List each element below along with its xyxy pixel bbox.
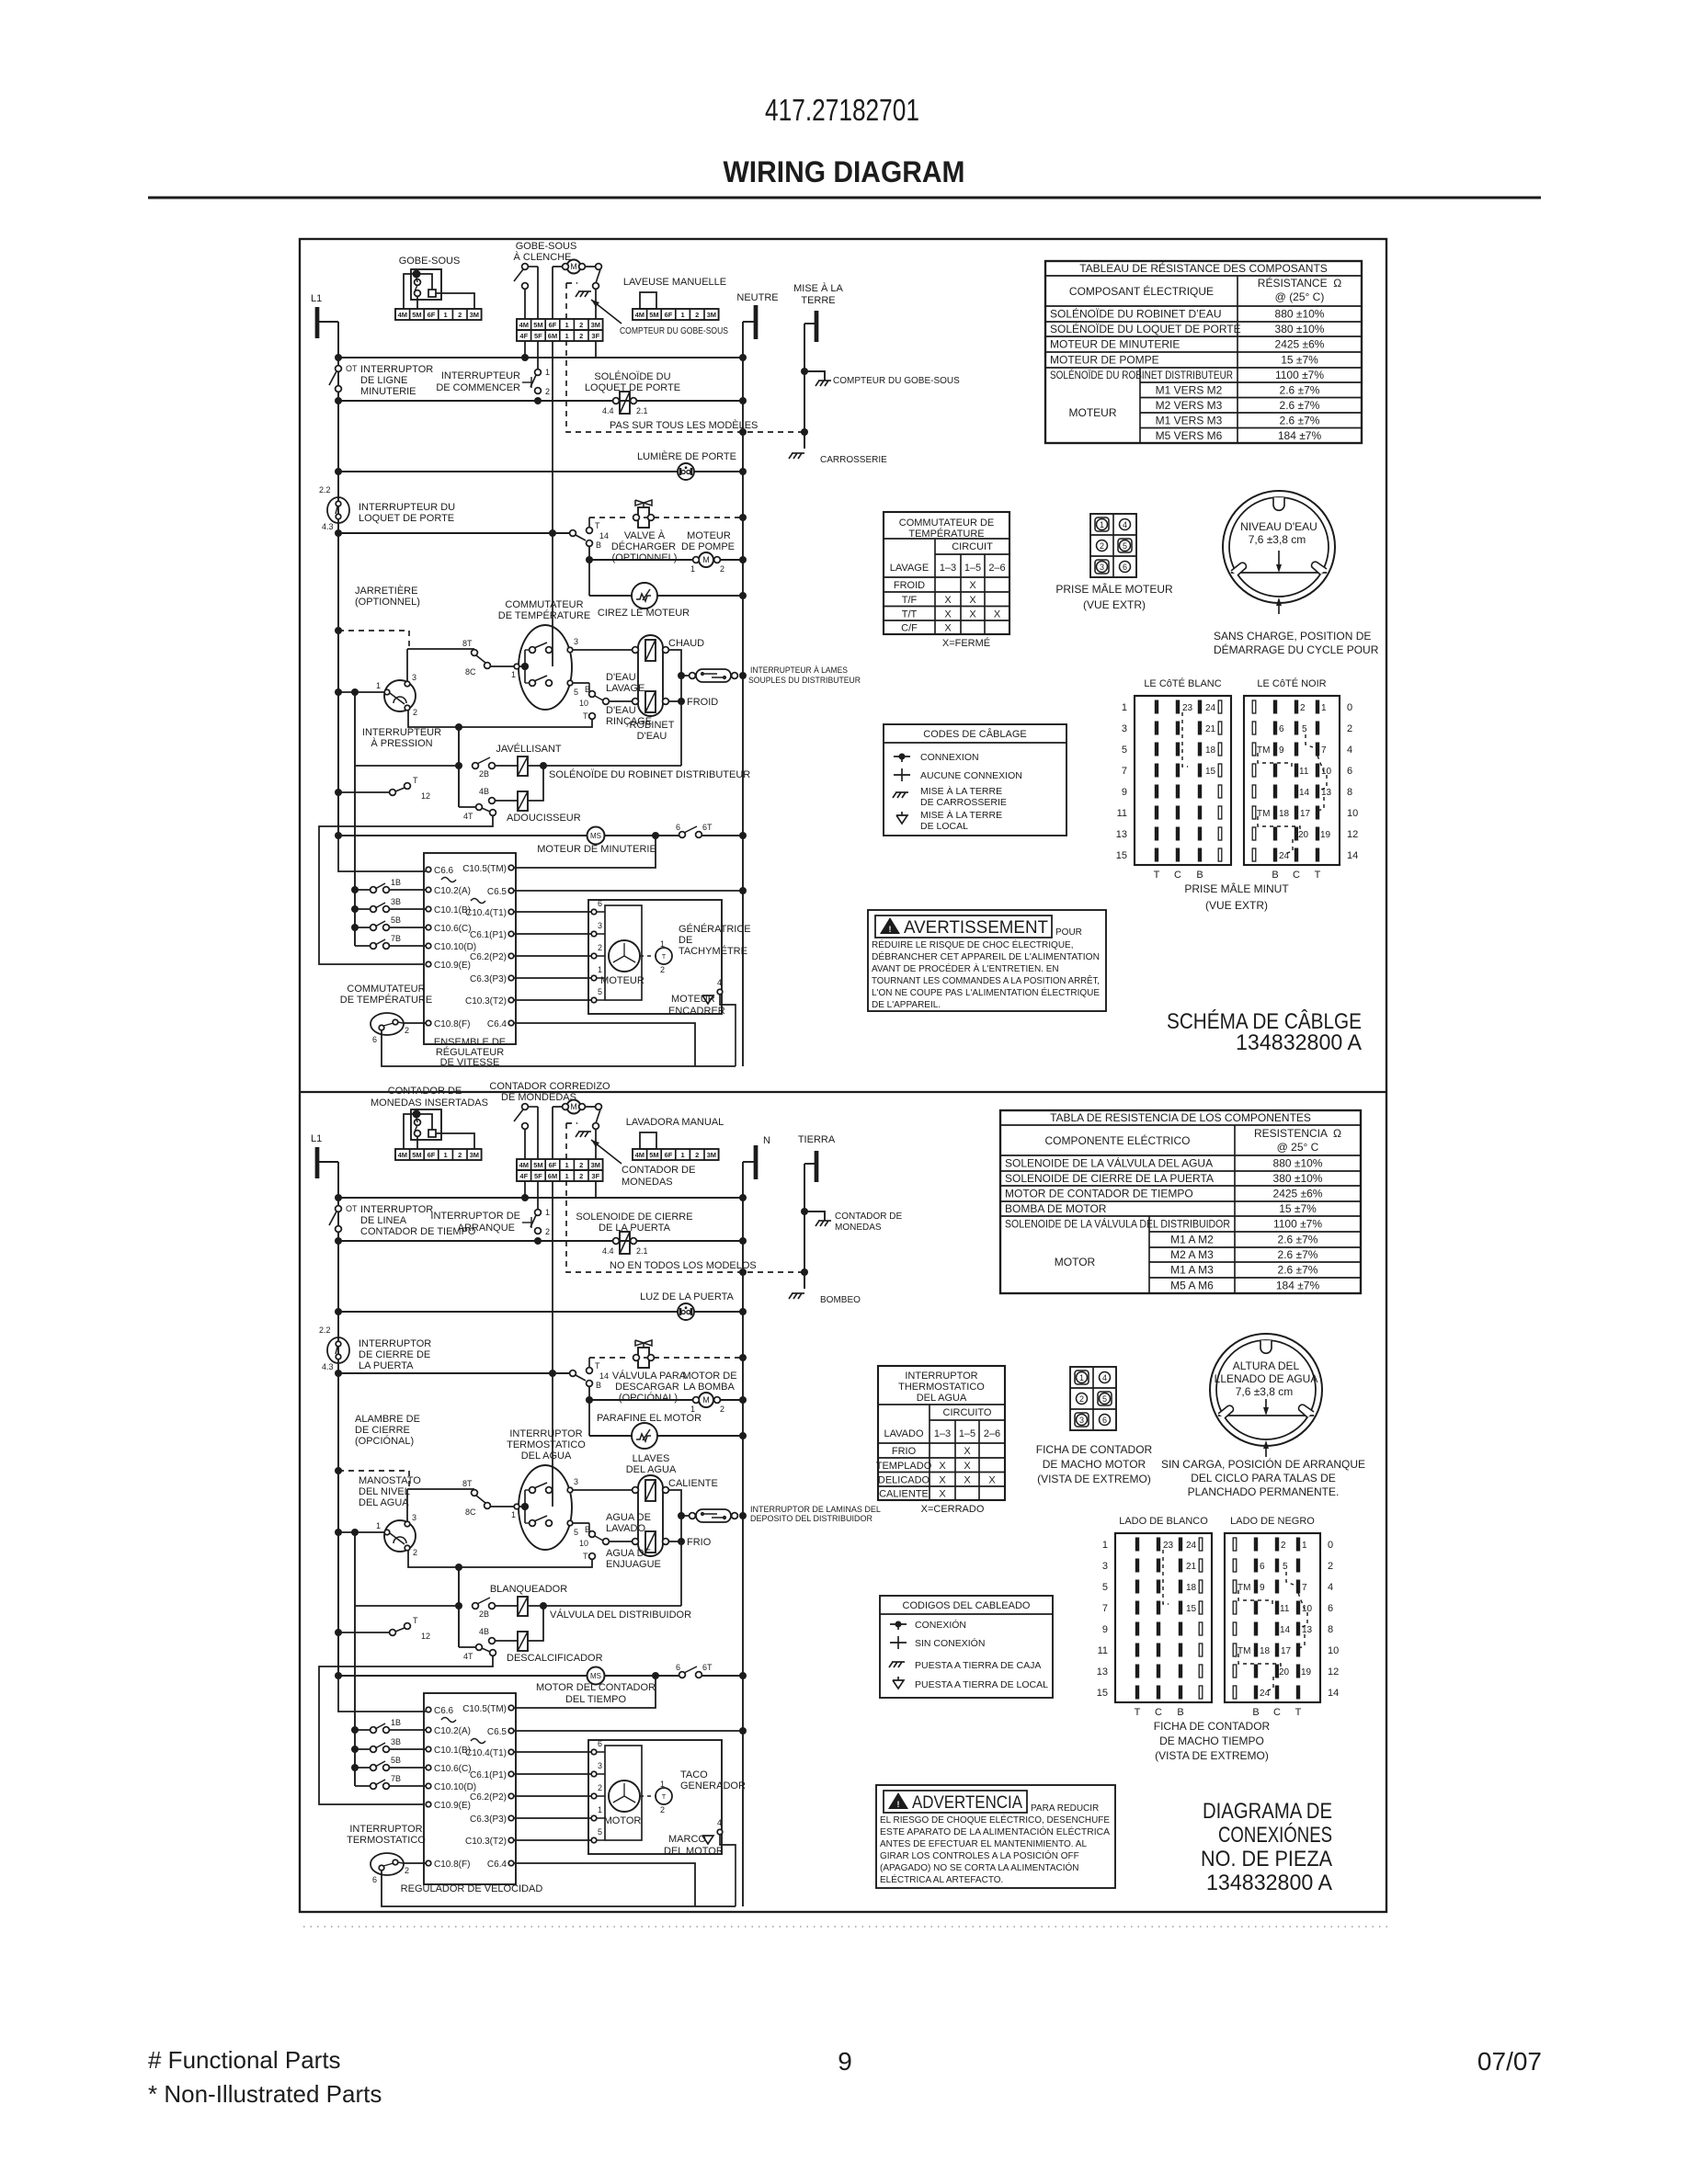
svg-text:DE TEMPÉRATURE: DE TEMPÉRATURE [498,609,590,621]
svg-text:FROID: FROID [687,697,718,708]
svg-text:REGULADOR DE VELOCIDAD: REGULADOR DE VELOCIDAD [401,1883,543,1894]
svg-text:TM: TM [1237,1646,1250,1656]
svg-text:5B: 5B [391,1756,401,1765]
svg-text:1: 1 [1100,520,1104,529]
timer line switch OT [336,1206,342,1212]
C6.5 squiggle [471,1739,485,1744]
svg-text:6F: 6F [549,321,557,329]
start switch [535,370,542,376]
wire thermostat to C10.8 [398,1862,403,1863]
svg-text:LADO DE NEGRO: LADO DE NEGRO [1230,1516,1315,1527]
svg-text:417.27182701: 417.27182701 [765,93,919,127]
svg-text:C6.1(P1): C6.1(P1) [470,930,507,940]
softener switch 4B [489,798,496,804]
svg-text:DE: DE [679,935,692,946]
svg-text:PAS SUR TOUS LES MODÈLES: PAS SUR TOUS LES MODÈLES [610,419,758,431]
svg-text:B: B [585,1525,590,1534]
svg-text:TABLEAU DE RÉSISTANCE DES COMP: TABLEAU DE RÉSISTANCE DES COMPOSANTS [1079,261,1328,275]
temp switch upper contact [530,1487,536,1494]
svg-text:MINUTERIE: MINUTERIE [360,386,416,397]
timer motor MS [587,1667,605,1685]
pressure switch [384,1520,416,1552]
svg-text:FROID: FROID [894,580,925,591]
svg-text:3F: 3F [591,1172,599,1180]
svg-text:3: 3 [412,673,416,682]
svg-text:X: X [969,609,976,620]
svg-text:4F: 4F [519,332,528,340]
svg-text:NO EN TODOS LOS MODELOS: NO EN TODOS LOS MODELOS [610,1260,757,1271]
svg-text:DÉMARRAGE DU CYCLE POUR: DÉMARRAGE DU CYCLE POUR [1214,643,1379,656]
svg-text:INTERRUPTOR: INTERRUPTOR [360,364,433,375]
svg-text:2: 2 [695,1151,699,1159]
temp switch upper contact [530,647,536,654]
svg-text:SOUPLES DU DISTRIBUTEUR: SOUPLES DU DISTRIBUTEUR [748,676,861,686]
svg-text:1B: 1B [391,1718,401,1727]
motor pin 2 [591,953,597,959]
earth rail wire [804,1164,805,1289]
svg-text:5M: 5M [412,1151,421,1159]
svg-text:18: 18 [1279,809,1290,819]
softener switch 4T [459,806,476,808]
svg-text:SOLÉNOÏDE DU LOQUET DE PORTE: SOLÉNOÏDE DU LOQUET DE PORTE [1050,322,1241,336]
svg-text:PRISE MÂLE MINUT: PRISE MÂLE MINUT [1184,882,1289,895]
svg-text:21: 21 [1186,1562,1197,1572]
drain valve switch [570,1371,576,1377]
svg-text:21: 21 [1205,724,1216,734]
softener switch 4T [459,1646,476,1648]
coin relay wires [404,274,416,309]
svg-text:PLANCHADO PERMANENTE.: PLANCHADO PERMANENTE. [1188,1485,1340,1498]
svg-text:SOLENOIDE DE CIERRE DE LA PUER: SOLENOIDE DE CIERRE DE LA PUERTA [1005,1172,1214,1185]
svg-text:INTERRUPTEUR DU: INTERRUPTEUR DU [359,502,455,513]
svg-text:T: T [662,954,667,961]
svg-text:THERMOSTATICO: THERMOSTATICO [898,1382,985,1393]
regulator pin C6.5 [508,1728,514,1734]
svg-text:0: 0 [1328,1540,1333,1551]
selector switch 3B [351,1746,359,1753]
svg-text:2: 2 [598,943,602,952]
warning box AVERTISSEMENT [868,910,1106,1011]
svg-text:2: 2 [1300,703,1306,713]
manual washer jumper box [640,292,656,309]
svg-text:2: 2 [598,1783,602,1792]
svg-text:DEL AGUA: DEL AGUA [626,1464,677,1475]
svg-text:RÉDUIRE LE RISQUE DE CHOC ÉLEC: RÉDUIRE LE RISQUE DE CHOC ÉLECTRIQUE, [872,938,1073,950]
svg-text:1: 1 [681,311,685,319]
bottom loop wire [382,1030,695,1066]
svg-text:8T: 8T [462,1479,473,1488]
door latch solenoid [620,1232,630,1254]
motor pin 3 [591,1771,597,1777]
svg-text:12: 12 [421,1632,430,1641]
wire C6.5 row [514,890,743,892]
svg-text:15 ±7%: 15 ±7% [1279,1202,1317,1215]
svg-text:4B: 4B [479,1627,489,1636]
svg-text:B: B [1272,870,1278,881]
svg-text:15: 15 [1186,1604,1197,1614]
svg-text:2.1: 2.1 [636,1246,648,1256]
svg-text:2: 2 [720,564,724,574]
wire pin3 up [406,1489,408,1521]
svg-text:L1: L1 [311,293,322,304]
svg-text:1: 1 [565,1161,569,1169]
svg-text:2.2: 2.2 [319,485,331,495]
wire H1 bus [338,357,743,358]
svg-text:D'EAU: D'EAU [606,705,636,716]
svg-text:MOTEUR: MOTEUR [600,975,644,986]
regulator pin C6.5 [508,888,514,893]
svg-text:4: 4 [1347,745,1352,756]
svg-text:T: T [662,1794,667,1801]
T 12 switch [335,1629,342,1636]
regulator pin C10.2(A) [426,887,431,893]
svg-text:LAVAGE: LAVAGE [890,563,929,574]
svg-text:MOTOR DE: MOTOR DE [682,1371,736,1382]
svg-text:C10.10(D): C10.10(D) [434,1782,476,1792]
coin counter ground [804,1211,825,1221]
wire 3F column [595,1181,597,1198]
drain valve symbol [638,1348,649,1368]
svg-text:SANS CHARGE, POSITION DE: SANS CHARGE, POSITION DE [1214,630,1371,643]
svg-text:C10.8(F): C10.8(F) [434,1860,470,1870]
svg-text:14: 14 [599,1371,609,1381]
svg-text:6: 6 [676,823,680,832]
bleach switch 2B [473,1603,479,1610]
svg-text:D'EAU: D'EAU [637,731,667,742]
svg-text:14: 14 [1280,1625,1291,1635]
wiring codes box [884,724,1066,836]
svg-text:C: C [1293,870,1300,881]
speed regulator box [424,853,516,1044]
selector switch 5B [351,1764,359,1771]
svg-text:6: 6 [598,899,602,908]
svg-text:ARRANQUE: ARRANQUE [458,1223,515,1234]
drain valve dashed wire [588,518,590,528]
svg-text:4M: 4M [519,1161,529,1169]
svg-text:M1 A M2: M1 A M2 [1170,1234,1214,1246]
svg-text:INTERRUPTOR: INTERRUPTOR [905,1371,977,1382]
svg-text:C10.6(C): C10.6(C) [434,1764,472,1774]
regulator pin C10.8(F) [426,1020,431,1026]
svg-text:DE MONDEDAS: DE MONDEDAS [501,1092,576,1103]
svg-text:23: 23 [1182,703,1193,713]
svg-text:12: 12 [421,791,430,801]
wax motor symbol [632,583,657,609]
svg-text:M: M [702,555,710,564]
svg-text:DEL AGUA: DEL AGUA [359,1497,409,1508]
svg-text:COMPTEUR DU GOBE-SOUS: COMPTEUR DU GOBE-SOUS [620,326,728,336]
regulator pin C10.5(TM) [508,865,514,870]
svg-text:2: 2 [579,332,583,340]
svg-text:C10.6(C): C10.6(C) [434,924,472,934]
svg-text:3F: 3F [591,332,599,340]
svg-text:2: 2 [660,1805,665,1814]
svg-text:1–5: 1–5 [964,563,981,574]
regulator pin C6.3(P3) [508,975,514,981]
svg-text:X: X [964,1474,971,1485]
svg-text:2: 2 [413,1548,417,1557]
svg-text:JARRETIÈRE: JARRETIÈRE [355,585,417,597]
regulator pin C6.1(P1) [508,931,514,937]
frame ground triangle [702,995,713,1004]
svg-text:7: 7 [1102,1603,1108,1614]
svg-text:2.6 ±7%: 2.6 ±7% [1278,1234,1318,1246]
svg-text:COMPONENTE ELÉCTRICO: COMPONENTE ELÉCTRICO [1044,1133,1190,1147]
svg-text:C6.6: C6.6 [434,1706,454,1716]
svg-text:CALIENTE: CALIENTE [668,1478,718,1489]
svg-text:SOLENOIDE DE LA VÁLVULA DEL DI: SOLENOIDE DE LA VÁLVULA DEL DISTRIBUIDOR [1005,1217,1230,1231]
selector switch 3B [351,905,359,913]
svg-text:10: 10 [1347,808,1358,819]
regulator pin C10.5(TM) [508,1705,514,1711]
svg-text:T: T [583,711,588,721]
svg-text:OT: OT [346,364,358,373]
bottom loop wire [382,1871,695,1906]
svg-text:M2 A M3: M2 A M3 [1170,1248,1214,1261]
svg-text:OT: OT [346,1204,358,1213]
water valve capsule [638,1475,663,1556]
svg-text:3: 3 [598,1761,602,1770]
svg-text:5: 5 [598,1827,602,1837]
svg-text:X: X [944,595,952,606]
svg-text:M1 A M3: M1 A M3 [1170,1264,1214,1277]
timer motor MS [587,827,605,845]
svg-text:3: 3 [1122,723,1127,734]
svg-text:FRIO: FRIO [892,1446,917,1457]
pointer arrow to ground [591,300,622,324]
svg-text:23: 23 [1163,1541,1174,1551]
right rail wire [742,322,744,1066]
center double connector strip [517,1159,603,1170]
wire 3F column [595,341,597,358]
svg-text:C10.8(F): C10.8(F) [434,1019,470,1029]
svg-text:5M: 5M [533,321,542,329]
svg-text:24: 24 [1186,1541,1197,1551]
svg-text:POUR: POUR [1055,927,1082,938]
svg-text:380 ±10%: 380 ±10% [1275,323,1325,336]
svg-text:C10.4(T1): C10.4(T1) [465,908,507,918]
svg-text:19: 19 [1301,1667,1312,1678]
svg-text:15: 15 [1205,767,1216,777]
svg-text:GOBE-SOUS: GOBE-SOUS [399,256,461,267]
svg-text:MOTOR: MOTOR [1055,1256,1096,1268]
svg-text:6M: 6M [548,1172,557,1180]
svg-text:1: 1 [545,368,550,377]
svg-text:LAVEUSE MANUELLE: LAVEUSE MANUELLE [623,277,726,288]
warning box ADVERTENCIA [876,1785,1115,1888]
svg-text:8C: 8C [465,667,476,677]
svg-text:8T: 8T [462,639,473,648]
svg-text:CONTADOR DE: CONTADOR DE [388,1086,462,1097]
svg-text:4T: 4T [463,1652,473,1661]
svg-text:3M: 3M [707,1151,716,1159]
wire H3 bus [338,1311,743,1313]
distributor solenoid wire [543,1605,681,1607]
motor plug connector [1090,514,1136,577]
motor pin 5 [591,1837,597,1843]
svg-text:2: 2 [579,1161,583,1169]
svg-text:CODIGOS DEL CABLEADO: CODIGOS DEL CABLEADO [903,1600,1031,1611]
svg-text:T: T [1135,1707,1141,1718]
wire C6.5 row [514,1730,743,1732]
svg-text:DE TEMPÉRATURE: DE TEMPÉRATURE [340,994,432,1006]
svg-text:FICHA DE CONTADOR: FICHA DE CONTADOR [1154,1720,1271,1733]
wire from selector rail to bleach row [355,1605,459,1607]
motor inner frame [605,1746,642,1840]
svg-text:7,6 ±3,8 cm: 7,6 ±3,8 cm [1236,1385,1294,1398]
jumper dashed wire [335,1467,342,1474]
svg-text:MONEDAS: MONEDAS [622,1177,673,1188]
bottom perforation dots [303,1926,1388,1928]
svg-text:M5 A M6: M5 A M6 [1170,1280,1214,1292]
tach generator [640,955,656,957]
svg-text:ADVERTENCIA: ADVERTENCIA [912,1793,1022,1813]
svg-text:T: T [583,1552,588,1561]
selector switch 7B [355,945,371,947]
svg-text:À CLENCHE: À CLENCHE [514,251,572,263]
wire 4F column [524,341,526,358]
svg-text:TM: TM [1257,809,1270,819]
svg-text:20: 20 [1279,1667,1290,1678]
svg-text:(OPTIONNEL): (OPTIONNEL) [355,597,420,608]
svg-text:3M: 3M [591,1161,600,1169]
svg-text:GIRAR LOS CONTROLES A LA POSIC: GIRAR LOS CONTROLES A LA POSICIÓN OFF [880,1849,1079,1861]
svg-text:T: T [1315,870,1321,881]
svg-text:T: T [595,1361,600,1371]
svg-text:CHAUD: CHAUD [668,638,704,649]
svg-text:(OPCIÓNAL): (OPCIÓNAL) [355,1435,414,1447]
svg-text:CONEXIÓN: CONEXIÓN [915,1619,966,1631]
svg-text:880 ±10%: 880 ±10% [1273,1157,1323,1170]
svg-text:DESCALCIFICADOR: DESCALCIFICADOR [507,1653,603,1664]
svg-text:(VUE EXTR): (VUE EXTR) [1205,899,1268,912]
svg-text:1: 1 [565,332,569,340]
svg-text:2: 2 [1328,1561,1333,1572]
svg-text:12: 12 [1328,1666,1339,1678]
svg-text:1: 1 [1321,703,1327,713]
svg-text:18: 18 [1186,1583,1197,1593]
svg-text:DE LIGNE: DE LIGNE [360,375,407,386]
svg-text:4.4: 4.4 [602,406,614,415]
svg-text:10: 10 [579,699,588,708]
svg-text:!: ! [889,925,892,934]
C6.6 squiggle [441,1718,456,1723]
svg-text:INTERRUPTOR: INTERRUPTOR [349,1824,422,1835]
svg-text:7: 7 [1122,766,1127,777]
svg-text:CIRCUITO: CIRCUITO [943,1407,992,1418]
svg-text:7: 7 [1321,745,1327,756]
froid rail down [680,1516,682,1606]
temp switch left pin [514,1504,519,1509]
thermostat switch [371,1013,404,1035]
door light lamp [678,1303,694,1320]
svg-text:3: 3 [574,637,578,646]
svg-text:CARROSSERIE: CARROSSERIE [820,455,887,465]
svg-text:MONEDAS INSERTADAS: MONEDAS INSERTADAS [371,1098,488,1109]
svg-text:X: X [964,1461,971,1472]
coin counter ground [804,371,825,381]
svg-text:(OPCIÓNAL): (OPCIÓNAL) [619,1392,678,1404]
regulator pin C6.6 [426,1707,431,1712]
svg-text:TEMPLADO: TEMPLADO [876,1461,932,1472]
coin slide motor M [567,1100,581,1114]
temperature circuit table [884,512,1009,634]
svg-text:3B: 3B [391,1737,401,1746]
svg-text:1: 1 [376,1521,381,1530]
coin relay coil [428,1130,436,1137]
svg-text:2.6 ±7%: 2.6 ±7% [1280,399,1320,412]
wire C6.6 feed [338,1676,426,1712]
froid rail down [680,676,682,766]
svg-text:C10.2(A): C10.2(A) [434,886,471,896]
optional dashed enclosure [565,283,567,319]
svg-text:CONTADOR CORREDIZO: CONTADOR CORREDIZO [489,1081,610,1092]
svg-text:COMMUTATEUR: COMMUTATEUR [347,984,425,995]
svg-text:2425 ±6%: 2425 ±6% [1275,338,1325,351]
svg-text:17: 17 [1300,809,1311,819]
svg-text:0: 0 [1347,702,1352,713]
svg-text:PUESTA A TIERRA DE LOCAL: PUESTA A TIERRA DE LOCAL [915,1679,1048,1690]
svg-text:TACO: TACO [680,1769,708,1780]
svg-text:MOTOR DEL CONTADOR: MOTOR DEL CONTADOR [536,1682,656,1693]
svg-text:2–6: 2–6 [984,1428,1000,1439]
wiring codes box ES [880,1596,1053,1698]
svg-text:DE MACHO TIEMPO: DE MACHO TIEMPO [1159,1735,1264,1747]
svg-text:2: 2 [413,708,417,717]
wax motor symbol [632,1423,657,1449]
svg-text:6: 6 [1102,1416,1107,1425]
wire 6F rail [552,1181,553,1507]
svg-text:TM: TM [1257,745,1270,756]
water level dial ES [1210,1334,1322,1446]
svg-text:2.6 ±7%: 2.6 ±7% [1280,414,1320,427]
svg-text:3: 3 [1102,1561,1108,1572]
svg-text:134832800 A: 134832800 A [1206,1871,1332,1895]
svg-text:13: 13 [1097,1666,1108,1678]
svg-text:!: ! [897,1800,900,1809]
regulator pin C10.1(B) [426,906,431,912]
svg-text:10: 10 [579,1539,588,1548]
svg-text:2: 2 [1281,1541,1286,1551]
wire TM feed [512,836,656,868]
svg-text:6F: 6F [549,1161,557,1169]
svg-text:DE LOCAL: DE LOCAL [920,821,968,832]
svg-text:11: 11 [1280,1604,1290,1614]
svg-text:1–5: 1–5 [959,1428,975,1439]
wire H2 bus [338,400,743,402]
svg-text:M: M [570,262,577,271]
svg-text:C10.10(D): C10.10(D) [434,942,476,952]
left rail lower [337,631,339,836]
svg-text:6T: 6T [702,1663,713,1672]
selector switch 1B [351,886,359,893]
svg-text:(VISTA DE EXTREMO): (VISTA DE EXTREMO) [1155,1749,1269,1762]
svg-text:TERRE: TERRE [801,295,835,306]
svg-text:SOLÉNOÏDE DU ROBINET DISTRIBUT: SOLÉNOÏDE DU ROBINET DISTRIBUTEUR [549,768,750,780]
svg-text:C6.4: C6.4 [487,1860,508,1870]
svg-text:C10.9(E): C10.9(E) [434,1801,471,1811]
svg-text:L1: L1 [311,1133,322,1144]
4T return wire [319,815,493,964]
svg-text:2: 2 [1347,723,1352,734]
svg-text:1: 1 [598,1805,602,1814]
svg-text:B: B [596,540,601,550]
coin slide left switch [522,1104,529,1110]
svg-text:SOLÉNOÏDE DU ROBINET DISTRIBUT: SOLÉNOÏDE DU ROBINET DISTRIBUTEUR [1050,368,1233,381]
svg-text:4: 4 [717,978,722,987]
svg-text:1: 1 [1102,1540,1108,1551]
svg-text:B: B [1177,1707,1183,1718]
